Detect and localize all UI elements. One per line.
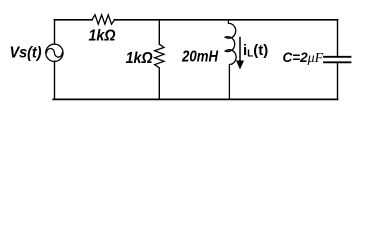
svg-text:C=2μF: C=2μF xyxy=(283,50,324,66)
svg-text:iL(t): iL(t) xyxy=(243,42,268,60)
svg-text:Vs(t): Vs(t) xyxy=(10,44,42,61)
svg-text:1kΩ: 1kΩ xyxy=(126,50,153,67)
svg-text:20mH: 20mH xyxy=(181,48,218,65)
svg-text:1kΩ: 1kΩ xyxy=(89,27,116,44)
